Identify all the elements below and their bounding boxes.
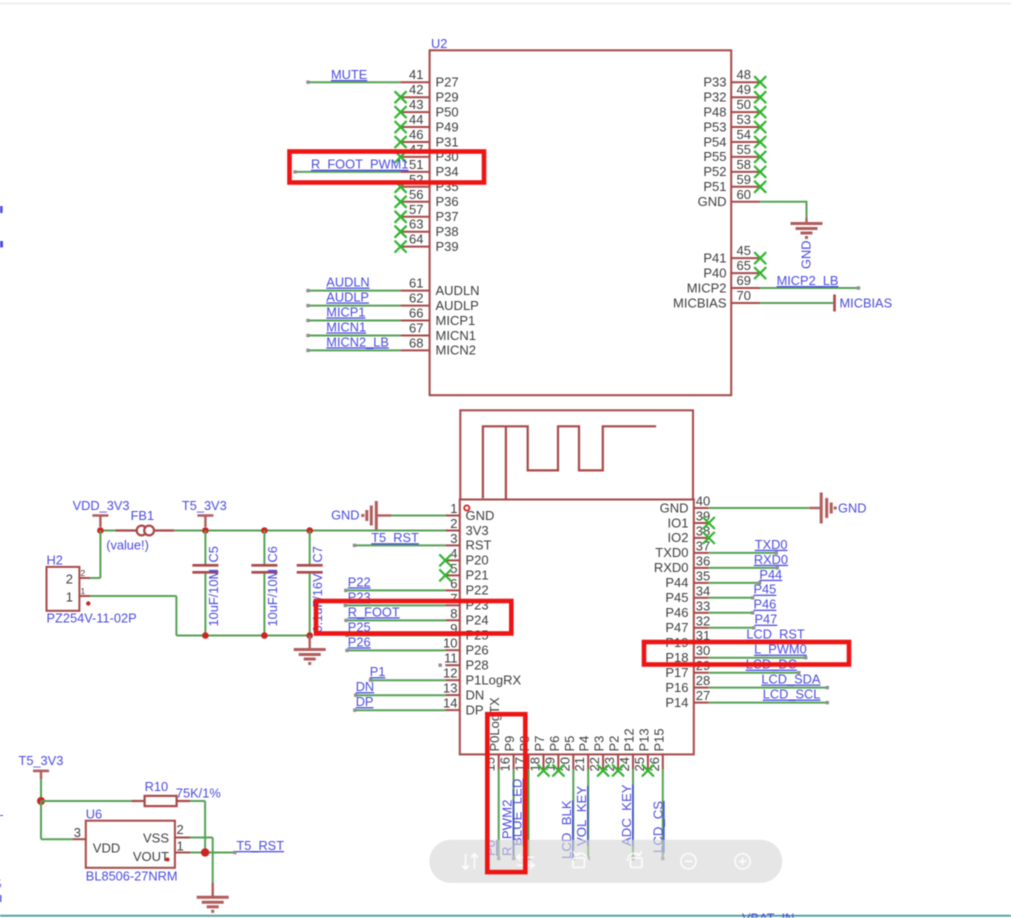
svg-text:VBAT_IN: VBAT_IN: [742, 911, 794, 918]
svg-text:27: 27: [696, 688, 710, 703]
svg-text:P44: P44: [759, 567, 782, 582]
toolbar icon undo: [573, 851, 588, 868]
svg-text:P47: P47: [665, 620, 688, 635]
junction VDD: [97, 527, 104, 534]
capacitor C5: [192, 531, 218, 636]
svg-text:P40: P40: [703, 265, 726, 280]
svg-text:AUDLN: AUDLN: [326, 275, 369, 290]
wire MICN2_LB: [306, 349, 400, 352]
U1 pin 15 P0LogTX (bottom): [483, 697, 503, 772]
svg-text:C5: C5: [206, 546, 221, 562]
svg-text:IO2: IO2: [668, 530, 689, 545]
U6 pin 2 VSS: [143, 822, 190, 845]
wire TXD0: [709, 551, 778, 554]
svg-text:P45: P45: [665, 590, 688, 605]
svg-text:45: 45: [737, 243, 751, 258]
svg-text:14: 14: [443, 696, 457, 711]
svg-text:VDD: VDD: [93, 841, 120, 856]
no-connect U1 pin 38: [703, 532, 715, 544]
R10 reference designator: [145, 779, 168, 794]
GND label (rotated): [799, 241, 814, 269]
svg-text:R_FOOT: R_FOOT: [348, 604, 400, 619]
svg-text:P14: P14: [665, 695, 688, 710]
toolbar icon swap-vertical: [462, 854, 478, 869]
svg-text:P16: P16: [665, 680, 688, 695]
svg-text:3: 3: [74, 825, 81, 840]
wire MICN1: [306, 334, 400, 337]
module U1 logo box: [460, 410, 693, 499]
U6 pin 3 VDD: [72, 825, 120, 856]
svg-text:(value!): (value!): [106, 538, 149, 553]
svg-text:GND: GND: [698, 194, 727, 209]
svg-text:P32: P32: [703, 90, 726, 105]
wire FB1 to 3V3 rail: [174, 530, 445, 532]
net label LCD_SCL: [763, 687, 821, 702]
wire P23: [344, 604, 446, 607]
svg-text:MICP2: MICP2: [687, 280, 727, 295]
svg-text:GND: GND: [331, 508, 359, 523]
svg-text:GND: GND: [838, 501, 866, 516]
net label BLUE_LED (rotated): [510, 779, 525, 846]
svg-text:BLUE_LED: BLUE_LED: [510, 779, 525, 846]
U1 pin 23 P2 (bottom): [602, 736, 622, 772]
wire U1 pin1 GND: [391, 515, 445, 517]
svg-text:MICP1: MICP1: [436, 313, 476, 328]
resistor R10: [131, 796, 190, 806]
U1 pin 40 GND: [660, 494, 711, 516]
U2 pin 54 P54: [703, 127, 760, 149]
svg-text:TXD0: TXD0: [755, 537, 788, 552]
U1 pin 32 P47: [665, 613, 710, 635]
svg-text:GND: GND: [799, 241, 814, 269]
wire T5_RST out: [190, 851, 237, 854]
module U1 logo waveform: [483, 426, 656, 499]
U2 pin 66 MICP1: [401, 306, 476, 328]
wire P0: [497, 769, 500, 860]
net label MUTE: [331, 67, 367, 82]
net label DP: [356, 694, 374, 709]
svg-text:GND: GND: [660, 500, 689, 515]
U2 pin 63 P38: [401, 217, 459, 239]
U1 pin 5 P21: [445, 561, 488, 583]
U1 pin 4 P20: [445, 546, 488, 568]
U1 pin 21 P4 (bottom): [572, 736, 592, 772]
svg-text:P29: P29: [436, 90, 459, 105]
svg-text:IO1: IO1: [668, 515, 689, 530]
svg-text:VOL_KEY: VOL_KEY: [574, 786, 589, 846]
svg-text:1: 1: [450, 501, 457, 516]
no-connect U1 pin 5: [439, 569, 451, 581]
U1 pin 38 IO2: [668, 523, 711, 545]
net label MICN2_LB: [326, 334, 389, 349]
svg-text:P37: P37: [436, 209, 459, 224]
svg-text:VDD_3V3: VDD_3V3: [73, 498, 130, 513]
svg-text:35: 35: [696, 568, 710, 583]
no-connect U2 pin 48: [754, 76, 766, 88]
U2 pin 51 P34: [401, 157, 459, 179]
wire U1 pin40 GND: [709, 507, 810, 509]
svg-text:68: 68: [409, 335, 423, 350]
svg-text:P55: P55: [703, 149, 726, 164]
svg-text:P9: P9: [502, 736, 517, 752]
no-connect U1 pin 22: [597, 765, 609, 777]
svg-text:P5: P5: [562, 736, 577, 752]
svg-text:AUDLN: AUDLN: [436, 283, 480, 298]
svg-text:16: 16: [498, 757, 513, 771]
svg-text:P2: P2: [607, 736, 622, 752]
U2 pin 46 P31: [401, 127, 459, 149]
wire P26: [345, 649, 445, 652]
U2 pin 49 P32: [703, 82, 760, 104]
net label R_PWM2 (rotated): [500, 800, 515, 856]
svg-text:P38: P38: [436, 224, 459, 239]
net label ADC_KEY (rotated): [619, 784, 634, 846]
bus VBAT_IN (teal): [0, 915, 1011, 917]
svg-text:T5_RST: T5_RST: [371, 530, 419, 545]
svg-text:56: 56: [409, 187, 423, 202]
FB1 value (value!): [106, 538, 149, 553]
svg-text:P1LogRX: P1LogRX: [466, 673, 522, 688]
wire GND pin60: [760, 201, 806, 219]
U2 pin 60 GND: [698, 187, 761, 209]
R10 value 75K/1%: [176, 786, 221, 801]
no-connect U1 pin 18: [538, 765, 550, 777]
no-connect U2 pin 57: [395, 211, 407, 223]
net label LCD_RST: [746, 627, 804, 642]
toolbar icon redo: [627, 851, 642, 868]
net label LCD_SDA: [761, 672, 820, 687]
U2 pin 44 P49: [401, 112, 459, 134]
GND label right: [838, 501, 866, 516]
svg-text:LCD_RST: LCD_RST: [746, 627, 804, 642]
no-connect U2 pin 45: [754, 252, 766, 264]
no-connect U2 pin 47: [395, 151, 407, 163]
net label LCD_DC: [746, 657, 797, 672]
toolbar icon zoom-out: [681, 854, 696, 869]
toolbar pill: [429, 840, 782, 883]
U2 pin 43 P50: [401, 97, 459, 119]
svg-text:MICN2_LB: MICN2_LB: [326, 334, 389, 349]
wire VDD junction to FB1: [100, 530, 115, 532]
U1 pin 31 P19: [665, 628, 710, 650]
wire T5_3V3 to R10: [41, 800, 131, 802]
U1 pin 2 3V3: [445, 516, 488, 538]
svg-text:66: 66: [409, 306, 423, 321]
U1 pin 35 P44: [665, 568, 710, 590]
wire MICBIAS: [760, 302, 833, 304]
no-connect U1 pin 39: [703, 517, 715, 529]
svg-text:1: 1: [177, 839, 184, 854]
svg-text:67: 67: [409, 321, 423, 336]
net label MICN1: [326, 319, 366, 334]
svg-text:FB1: FB1: [131, 508, 154, 523]
U1 pin 36 RXD0: [654, 553, 710, 575]
wire R_FOOT: [344, 619, 445, 622]
wire H2 pin1 to bottom rail: [90, 596, 176, 636]
no-connect U2 pin 46: [395, 136, 407, 148]
wire AUDLP: [306, 304, 400, 307]
svg-text:GND: GND: [466, 508, 495, 523]
wire BLUE_LED: [527, 769, 530, 860]
svg-text:DN: DN: [356, 679, 374, 694]
net label AUDLN: [326, 275, 369, 290]
no-connect U2 pin 58: [754, 166, 766, 178]
C6 value 10uF/10M (rotated): [265, 569, 280, 627]
svg-text:61: 61: [409, 276, 423, 291]
wire P1: [369, 679, 446, 682]
net label LCD_CS (rotated): [650, 801, 665, 853]
U1 pin 33 P46: [665, 598, 710, 620]
H2 part number PZ254V-11-02P: [47, 611, 137, 626]
svg-text:59: 59: [737, 172, 751, 187]
svg-text:32: 32: [696, 613, 710, 628]
svg-text:51: 51: [409, 157, 423, 172]
clipped label fragment 5: [0, 877, 2, 892]
svg-text:LCD_SCL: LCD_SCL: [763, 687, 821, 702]
ground symbol at U2 pin60: [791, 218, 823, 238]
net label MICP1: [326, 304, 365, 319]
svg-text:DP: DP: [356, 694, 374, 709]
svg-text:P50: P50: [436, 104, 459, 119]
net label T5_3V3 (lower): [19, 753, 64, 768]
wire P25: [345, 634, 445, 637]
U1 pin 37 TXD0: [655, 538, 710, 560]
svg-text:MICBIAS: MICBIAS: [840, 296, 893, 311]
svg-text:H2: H2: [47, 553, 63, 568]
U1 pin 29 P17: [665, 658, 710, 680]
net label RXD0: [754, 552, 788, 567]
U1 pin 28 P16: [665, 673, 710, 695]
svg-text:C6: C6: [265, 546, 280, 562]
net label P46: [754, 597, 777, 612]
svg-text:LCD_SDA: LCD_SDA: [761, 672, 820, 687]
clipped label fragment 2: [0, 241, 3, 247]
net label L_PWM0: [754, 642, 807, 657]
highlight box P0/R_PWM2: [487, 714, 525, 872]
svg-text:21: 21: [572, 757, 587, 771]
svg-text:70: 70: [737, 288, 751, 303]
svg-text:2: 2: [450, 516, 457, 531]
svg-text:P12: P12: [622, 728, 637, 751]
svg-text:3: 3: [450, 531, 457, 546]
wire cap bottom rail: [176, 635, 309, 637]
wire AUDLN: [306, 289, 400, 292]
U2 pin 61 AUDLN: [401, 276, 480, 298]
svg-text:ADC_KEY: ADC_KEY: [619, 784, 634, 846]
svg-text:30: 30: [696, 643, 710, 658]
no-connect U1 pin 25: [642, 765, 654, 777]
U1 pin 34 P45: [665, 583, 710, 605]
U1 pin 1 GND: [445, 501, 494, 523]
svg-text:DN: DN: [466, 687, 485, 702]
capacitor C6: [251, 531, 277, 636]
svg-text:P26: P26: [348, 634, 371, 649]
svg-text:60: 60: [737, 187, 751, 202]
no-connect U2 pin 53: [754, 121, 766, 133]
junction T5_3V3/R10: [37, 797, 45, 805]
C6 reference designator (rotated): [265, 546, 280, 562]
svg-text:T5_3V3: T5_3V3: [19, 753, 64, 768]
wire R10 to T5_RST node: [190, 801, 205, 853]
wire DN: [354, 694, 445, 697]
svg-text:BL8506-27NRM: BL8506-27NRM: [86, 869, 178, 884]
svg-text:P45: P45: [754, 582, 777, 597]
svg-text:VOUT: VOUT: [133, 849, 169, 864]
U6 part number BL8506-27NRM: [86, 869, 178, 884]
U6 pin 1 VOUT: [133, 839, 190, 865]
no-connect U2 pin 44: [395, 121, 407, 133]
svg-text:P54: P54: [703, 134, 726, 149]
svg-text:P33: P33: [703, 75, 726, 90]
U2 pin 50 P48: [703, 97, 760, 119]
stub dot U1 pin11: [439, 664, 442, 667]
C7 value 0.1uF/16V (rotated): [310, 573, 325, 633]
svg-text:PZ254V-11-02P: PZ254V-11-02P: [47, 611, 137, 626]
svg-text:P46: P46: [754, 597, 777, 612]
svg-text:54: 54: [737, 127, 751, 142]
svg-text:15: 15: [483, 757, 498, 771]
wire LCD_SCL: [709, 701, 829, 704]
wire R_PWM2: [512, 769, 515, 860]
svg-text:46: 46: [409, 127, 423, 142]
U2 pin 69 MICP2: [687, 273, 760, 295]
svg-text:VSS: VSS: [143, 830, 169, 845]
U2 pin 55 P55: [703, 142, 760, 164]
IC U6 body: [86, 821, 175, 868]
wire MUTE: [306, 81, 400, 84]
svg-text:10uF/10M: 10uF/10M: [206, 569, 221, 627]
junction C6 bottom: [261, 632, 268, 639]
svg-text:U6: U6: [86, 807, 102, 822]
svg-text:49: 49: [737, 82, 751, 97]
U2 pin 67 MICN1: [401, 321, 476, 343]
svg-text:28: 28: [696, 673, 710, 688]
U2 pin 59 P51: [703, 172, 760, 194]
svg-text:P24: P24: [466, 613, 489, 628]
net label P47: [755, 612, 778, 627]
module U1 body: [460, 500, 694, 755]
wire T5_RST to U1 pin3: [353, 544, 446, 547]
U6 reference designator: [86, 807, 102, 822]
junction C6 top: [261, 527, 268, 534]
wire MICP2_LB: [760, 286, 860, 289]
wire U6 VDD to T5_3V3: [41, 801, 72, 839]
no-connect U2 pin 63: [395, 226, 407, 238]
wire P45: [709, 596, 755, 599]
svg-text:25: 25: [632, 757, 647, 771]
U2 pin 57 P37: [401, 202, 459, 224]
C5 value 10uF/10M (rotated): [206, 569, 221, 627]
U2 pin 48 P33: [703, 67, 760, 89]
no-connect U2 pin 55: [754, 151, 766, 163]
svg-text:6: 6: [450, 576, 457, 591]
net label AUDLP: [326, 289, 369, 304]
U1 pin 27 P14: [665, 688, 710, 710]
svg-text:53: 53: [737, 112, 751, 127]
U1 pin 3 RST: [445, 531, 491, 553]
U2 pin 64 P39: [401, 232, 459, 254]
no-connect U2 pin 54: [754, 136, 766, 148]
power flag T5_3V3: [197, 516, 213, 528]
junction C5 bottom: [202, 632, 209, 639]
ferrite bead FB1: [116, 526, 175, 536]
svg-text:P48: P48: [703, 104, 726, 119]
net label P1: [370, 664, 386, 679]
U1 pin 12 P1LogRX: [443, 666, 521, 688]
svg-text:MICN1: MICN1: [436, 328, 476, 343]
port MICBIAS: [835, 295, 893, 312]
U2 pin 42 P29: [401, 82, 459, 104]
U1 pin 6 P22: [445, 576, 488, 598]
clipped label fragment 3: [0, 895, 1, 902]
svg-text:C7: C7: [310, 546, 325, 562]
svg-text:P3: P3: [592, 736, 607, 752]
svg-text:5: 5: [0, 877, 2, 892]
wire LCD_CS: [661, 769, 664, 860]
svg-text:P6: P6: [547, 736, 562, 752]
U1 pin 20 P5 (bottom): [557, 736, 577, 772]
svg-text:AUDLP: AUDLP: [436, 298, 479, 313]
svg-text:50: 50: [737, 97, 751, 112]
svg-text:P51: P51: [703, 179, 726, 194]
module U1 pin-1 marker: [464, 505, 469, 510]
clipped label fragment T: [0, 812, 4, 827]
toolbar icon zoom-in: [735, 854, 750, 869]
highlight box L_PWM0: [644, 642, 849, 665]
net label LCD_BLK (rotated): [559, 800, 574, 859]
svg-text:1: 1: [66, 590, 73, 605]
svg-text:44: 44: [409, 112, 423, 127]
svg-text:T5_3V3: T5_3V3: [182, 498, 227, 513]
U1 pin 14 DP: [443, 696, 484, 718]
U1 pin 18 P7 (bottom): [528, 736, 548, 772]
U1 pin 26 P15 (bottom): [647, 728, 667, 771]
no-connect U2 pin 43: [395, 106, 407, 118]
U2 pin 45 P41: [703, 243, 760, 265]
svg-text:P53: P53: [703, 119, 726, 134]
svg-text:T5_RST: T5_RST: [236, 838, 284, 853]
svg-text:43: 43: [409, 97, 423, 112]
U2 pin 62 AUDLP: [401, 291, 479, 313]
U1 pin 25 P13 (bottom): [632, 728, 652, 771]
svg-text:36: 36: [696, 553, 710, 568]
U1 pin 8 P24: [445, 606, 488, 628]
net label R_FOOT: [348, 604, 400, 619]
svg-text:10uF/10M: 10uF/10M: [265, 569, 280, 627]
svg-text:MICN1: MICN1: [326, 319, 366, 334]
ground symbol below C7: [294, 636, 326, 664]
U2 pin 70 MICBIAS: [673, 288, 760, 310]
svg-text:RXD0: RXD0: [754, 552, 788, 567]
svg-text:P36: P36: [436, 194, 459, 209]
svg-text:P22: P22: [466, 583, 489, 598]
svg-text:MICP2_LB: MICP2_LB: [777, 273, 839, 288]
svg-text:AUDLP: AUDLP: [326, 289, 369, 304]
net label VBAT_IN (clipped): [742, 911, 794, 918]
connector H2 body: [47, 567, 80, 611]
net label P0 (rotated): [483, 840, 498, 856]
junction C7 bottom: [306, 632, 313, 639]
H2 reference designator: [47, 553, 63, 568]
svg-text:62: 62: [409, 291, 423, 306]
svg-text:2: 2: [177, 822, 184, 837]
svg-text:33: 33: [696, 598, 710, 613]
highlight box R_FOOT: [316, 601, 511, 634]
wire MICP1: [306, 319, 400, 322]
svg-text:P34: P34: [436, 164, 459, 179]
net label T5_3V3: [182, 498, 227, 513]
net label T5_RST: [371, 530, 419, 545]
